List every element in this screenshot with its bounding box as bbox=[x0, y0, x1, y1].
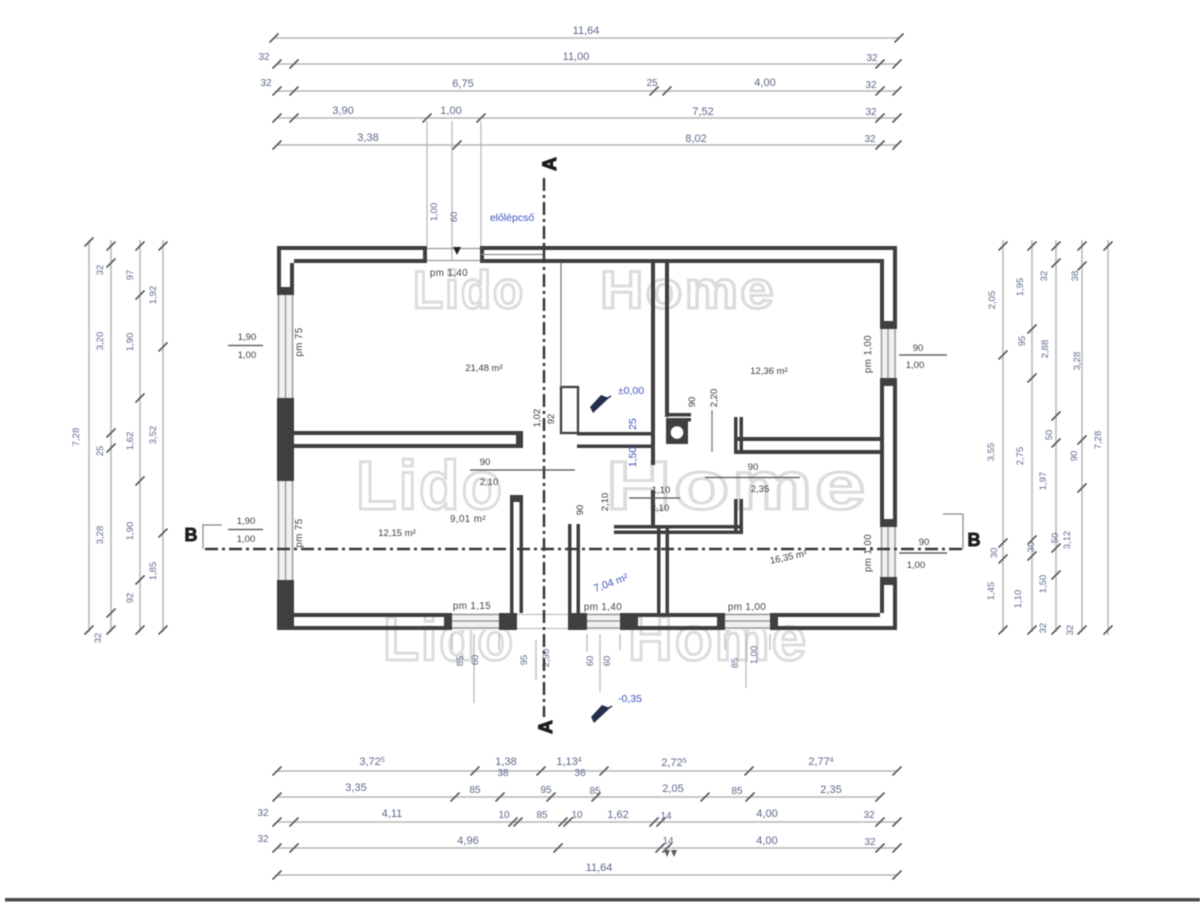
svg-text:85: 85 bbox=[589, 786, 601, 797]
interior wall H1b hall south bbox=[577, 432, 651, 436]
svg-text:B: B bbox=[185, 525, 198, 545]
svg-text:85: 85 bbox=[731, 786, 743, 797]
svg-text:1,00: 1,00 bbox=[429, 203, 440, 222]
svg-text:2,05: 2,05 bbox=[662, 783, 683, 795]
bottom wall solid blocks bbox=[499, 613, 517, 630]
section line A-A vertical bbox=[543, 178, 546, 717]
svg-text:32: 32 bbox=[863, 810, 875, 821]
svg-text:60: 60 bbox=[449, 212, 460, 223]
svg-text:50: 50 bbox=[1044, 430, 1055, 441]
interior wall V3 bbox=[734, 417, 738, 454]
svg-text:10: 10 bbox=[498, 810, 510, 821]
svg-text:4,00: 4,00 bbox=[754, 77, 775, 89]
extension lines entrance top bbox=[426, 121, 428, 246]
svg-text:1,00: 1,00 bbox=[907, 560, 926, 571]
dimension column left total 7,28 bbox=[88, 240, 90, 632]
svg-text:2,10: 2,10 bbox=[600, 493, 611, 512]
svg-text:3,12: 3,12 bbox=[1062, 531, 1073, 550]
svg-text:1,62: 1,62 bbox=[125, 432, 136, 451]
dimension column right 38/3,28/90/3,12/32 bbox=[1081, 240, 1083, 632]
svg-text:14: 14 bbox=[662, 836, 674, 847]
svg-text:90: 90 bbox=[913, 343, 924, 354]
svg-text:pm 1,40: pm 1,40 bbox=[430, 268, 468, 279]
interior wall V6 bbox=[568, 524, 572, 613]
svg-text:2,10: 2,10 bbox=[480, 477, 499, 488]
svg-text:1,10: 1,10 bbox=[652, 485, 671, 496]
svg-text:4,11: 4,11 bbox=[382, 808, 403, 820]
window middle line in top wall near entrance bbox=[481, 254, 545, 256]
svg-text:32: 32 bbox=[865, 80, 877, 91]
svg-text:1,00: 1,00 bbox=[237, 534, 256, 545]
window right upper 90 bbox=[880, 329, 897, 378]
svg-text:2,88: 2,88 bbox=[1040, 340, 1051, 359]
svg-text:A: A bbox=[540, 157, 561, 171]
svg-text:21,48 m²: 21,48 m² bbox=[465, 363, 503, 374]
svg-text:pm 1,40: pm 1,40 bbox=[584, 602, 622, 613]
svg-text:2,30: 2,30 bbox=[541, 649, 552, 668]
svg-text:32: 32 bbox=[1039, 271, 1050, 282]
svg-text:85: 85 bbox=[455, 656, 466, 667]
svg-text:1,95: 1,95 bbox=[1015, 278, 1026, 297]
window bottom pm 1,40 bbox=[587, 613, 620, 630]
svg-text:1,85: 1,85 bbox=[148, 562, 159, 581]
interior wall V2 hall east bbox=[651, 263, 655, 465]
small down arrows near 14 bbox=[664, 850, 677, 857]
svg-text:95: 95 bbox=[1017, 336, 1028, 347]
svg-text:3,28: 3,28 bbox=[1072, 352, 1083, 371]
svg-text:32: 32 bbox=[257, 808, 269, 819]
svg-text:14: 14 bbox=[660, 811, 672, 822]
threshold lines in bottom recess bbox=[517, 614, 568, 616]
svg-text:32: 32 bbox=[865, 107, 877, 118]
svg-text:32: 32 bbox=[1065, 625, 1076, 636]
outer wall bottom, inner face bbox=[294, 613, 452, 617]
dimension column right 32/2,88/50/1,97/50/1,50/32 bbox=[1055, 240, 1057, 632]
svg-text:3,38: 3,38 bbox=[357, 132, 378, 144]
window bottom pm 1,00 bbox=[725, 613, 770, 630]
svg-text:Home: Home bbox=[600, 261, 776, 320]
svg-text:32: 32 bbox=[260, 78, 272, 89]
svg-text:90: 90 bbox=[919, 537, 930, 548]
svg-text:12,15 m²: 12,15 m² bbox=[378, 528, 416, 539]
interior wall H4 bbox=[614, 525, 743, 529]
svg-text:1,45: 1,45 bbox=[986, 582, 997, 601]
outer wall top, inner face bbox=[294, 259, 427, 263]
svg-text:92: 92 bbox=[125, 593, 136, 604]
dimension row bottom 32/4,11/10/85/10/1,62/14/4,00/32 bbox=[277, 821, 897, 823]
svg-text:2,10: 2,10 bbox=[651, 503, 670, 514]
svg-text:10: 10 bbox=[571, 810, 583, 821]
svg-text:1,00: 1,00 bbox=[749, 646, 760, 665]
partition thin line hall bbox=[560, 263, 562, 387]
svg-text:6,75: 6,75 bbox=[452, 78, 473, 90]
svg-text:B: B bbox=[968, 530, 981, 550]
svg-text:pm 75: pm 75 bbox=[294, 327, 305, 356]
svg-text:pm 75: pm 75 bbox=[294, 518, 305, 547]
interior wall H3 wc north bbox=[666, 413, 691, 417]
svg-text:pm 1,00: pm 1,00 bbox=[728, 602, 766, 613]
svg-text:11,00: 11,00 bbox=[563, 51, 590, 63]
svg-text:90: 90 bbox=[748, 462, 759, 473]
chimney stub wall bbox=[561, 387, 578, 433]
dimension column left 32/3,20/25/3,28/32 bbox=[110, 240, 112, 632]
svg-text:90: 90 bbox=[687, 397, 698, 408]
interior wall V7 bbox=[510, 495, 514, 613]
svg-text:1,90: 1,90 bbox=[238, 332, 257, 343]
svg-text:12,36 m²: 12,36 m² bbox=[750, 366, 788, 377]
svg-text:32: 32 bbox=[864, 837, 876, 848]
entrance arrow bbox=[453, 247, 461, 255]
window bottom pm 1,15 bbox=[452, 613, 499, 630]
svg-text:32: 32 bbox=[95, 265, 106, 276]
svg-text:3,35: 3,35 bbox=[345, 782, 366, 794]
svg-text:32: 32 bbox=[257, 834, 269, 845]
window jamb caps right wall bbox=[880, 321, 897, 329]
svg-text:1,90: 1,90 bbox=[237, 516, 256, 527]
interior wall V4 bbox=[734, 499, 738, 533]
svg-text:1,62: 1,62 bbox=[607, 809, 628, 821]
dimension column left 1,92/3,52/1,85 bbox=[162, 240, 164, 632]
svg-text:1,02: 1,02 bbox=[532, 409, 543, 428]
svg-text:pm 1,00: pm 1,00 bbox=[863, 335, 874, 373]
window left upper 1,90 bbox=[277, 295, 294, 398]
svg-text:1,97: 1,97 bbox=[1038, 472, 1049, 491]
svg-text:3,20: 3,20 bbox=[95, 332, 106, 351]
outer wall right, outer face bbox=[893, 246, 897, 329]
svg-text:7,28: 7,28 bbox=[71, 428, 82, 447]
svg-text:4,96: 4,96 bbox=[457, 835, 478, 847]
outer wall right, inner face bbox=[880, 263, 884, 329]
svg-text:90: 90 bbox=[480, 457, 491, 468]
svg-text:97: 97 bbox=[125, 270, 136, 281]
svg-text:pm 1,15: pm 1,15 bbox=[453, 601, 491, 612]
svg-text:7,28: 7,28 bbox=[1093, 431, 1104, 450]
svg-text:11,64: 11,64 bbox=[573, 25, 600, 37]
svg-text:85: 85 bbox=[730, 658, 741, 669]
svg-text:1,00: 1,00 bbox=[238, 350, 257, 361]
svg-text:60: 60 bbox=[585, 656, 596, 667]
svg-text:25: 25 bbox=[95, 446, 106, 457]
svg-text:3,52: 3,52 bbox=[148, 426, 159, 445]
dimension row top total 11,64 bbox=[274, 37, 899, 39]
interior wall H1 between top-left and bottom-left rooms bbox=[291, 431, 523, 435]
extension lines bottom bbox=[473, 634, 475, 703]
dimension row top 3,90/1,00/7,52 bbox=[277, 117, 897, 119]
svg-text:95: 95 bbox=[540, 785, 552, 796]
svg-text:1,90: 1,90 bbox=[125, 522, 136, 541]
outer wall bottom, outer face bbox=[277, 626, 452, 630]
svg-text:3,28: 3,28 bbox=[95, 526, 106, 545]
svg-text:pm 1,00: pm 1,00 bbox=[863, 534, 874, 572]
dimension row bottom total 11,64 bbox=[277, 874, 897, 876]
svg-text:38: 38 bbox=[1070, 271, 1081, 282]
dimension column right total 7,28 bbox=[1107, 240, 1109, 635]
svg-text:30: 30 bbox=[989, 548, 1000, 559]
svg-text:30: 30 bbox=[1026, 542, 1037, 553]
dimension row bottom 3,35/85/95/85/2,05/85/2,35 bbox=[277, 796, 880, 798]
window jamb caps left wall bbox=[277, 287, 294, 295]
svg-text:1,00: 1,00 bbox=[906, 360, 925, 371]
svg-text:60: 60 bbox=[470, 655, 481, 666]
interior wall V5 bbox=[657, 526, 661, 613]
dimension row bottom 32/4,96/14/4,00/32 bbox=[277, 847, 897, 849]
svg-text:4,00: 4,00 bbox=[756, 835, 777, 847]
svg-text:95: 95 bbox=[519, 655, 530, 666]
svg-text:2,35: 2,35 bbox=[820, 784, 841, 796]
outer wall left, outer face bbox=[277, 246, 281, 295]
svg-text:2,35: 2,35 bbox=[751, 484, 770, 495]
entrance threshold lines bbox=[427, 248, 481, 250]
page bottom border line bbox=[5, 898, 1200, 902]
svg-text:1,50: 1,50 bbox=[627, 447, 639, 468]
svg-text:1,90: 1,90 bbox=[125, 333, 136, 352]
dimension column right 1,95/95/2,75/30/1,10 bbox=[1031, 240, 1033, 632]
dimension row top 3,38/8,02 bbox=[277, 144, 897, 146]
dimension column right 2,05/3,55/30/1,45 bbox=[1002, 240, 1004, 632]
window right lower 90 bbox=[880, 527, 897, 577]
svg-text:25: 25 bbox=[627, 418, 639, 430]
svg-text:11,64: 11,64 bbox=[586, 862, 613, 874]
svg-text:36: 36 bbox=[574, 768, 586, 779]
entrance wall end caps bbox=[423, 246, 427, 263]
svg-text:előlépcső: előlépcső bbox=[490, 212, 535, 224]
bottom wall jamb caps bbox=[444, 613, 452, 630]
svg-text:2,05: 2,05 bbox=[987, 291, 998, 310]
partition thin line shower bbox=[711, 410, 713, 452]
section line B-B horizontal bbox=[205, 548, 963, 551]
svg-text:2,20: 2,20 bbox=[709, 389, 720, 408]
svg-text:38: 38 bbox=[497, 768, 509, 779]
window left lower 1,90 bbox=[277, 481, 294, 580]
svg-text:1,92: 1,92 bbox=[148, 286, 159, 305]
svg-text:9,01 m²: 9,01 m² bbox=[450, 514, 486, 525]
dimension column left 97/1,90/1,62/1,90/92 bbox=[139, 240, 141, 632]
svg-text:32: 32 bbox=[864, 134, 876, 145]
outer wall top, outer face bbox=[277, 246, 427, 250]
svg-text:1,38: 1,38 bbox=[495, 756, 516, 768]
svg-text:32: 32 bbox=[1038, 623, 1049, 634]
svg-text:1,00: 1,00 bbox=[440, 105, 461, 117]
outer wall left, inner face bbox=[290, 263, 294, 295]
svg-text:8,02: 8,02 bbox=[685, 133, 706, 145]
svg-text:92: 92 bbox=[546, 414, 557, 425]
svg-text:85: 85 bbox=[469, 785, 481, 796]
svg-text:±0,00: ±0,00 bbox=[618, 385, 644, 397]
dimension row top 32/11,00/32 bbox=[277, 63, 897, 65]
svg-text:90: 90 bbox=[1069, 451, 1080, 462]
svg-text:2,75: 2,75 bbox=[1015, 447, 1026, 466]
svg-text:3,55: 3,55 bbox=[986, 443, 997, 462]
svg-text:50: 50 bbox=[1050, 533, 1061, 544]
svg-text:-0,35: -0,35 bbox=[618, 693, 642, 705]
svg-text:1,50: 1,50 bbox=[1038, 575, 1049, 594]
interior wall H2 between right rooms bbox=[737, 437, 880, 441]
svg-text:85: 85 bbox=[536, 810, 548, 821]
svg-text:1,10: 1,10 bbox=[1013, 590, 1024, 609]
svg-text:32: 32 bbox=[258, 52, 270, 63]
dimension row bottom 3,72/1,38/1,13/2,72/2,77 bbox=[277, 770, 897, 772]
svg-text:25: 25 bbox=[646, 78, 658, 89]
svg-text:4,00: 4,00 bbox=[756, 808, 777, 820]
left wall solid pier between windows and bottom corner block bbox=[277, 398, 294, 481]
svg-text:32: 32 bbox=[93, 633, 104, 644]
wc fixture bbox=[666, 421, 688, 444]
svg-text:3,90: 3,90 bbox=[332, 105, 353, 117]
svg-text:A: A bbox=[536, 720, 557, 734]
svg-text:90: 90 bbox=[575, 505, 586, 516]
svg-text:32: 32 bbox=[866, 53, 878, 64]
svg-text:7,52: 7,52 bbox=[692, 106, 713, 118]
svg-text:60: 60 bbox=[602, 656, 613, 667]
dimension row top 6,75/25/4,00 bbox=[277, 90, 897, 92]
